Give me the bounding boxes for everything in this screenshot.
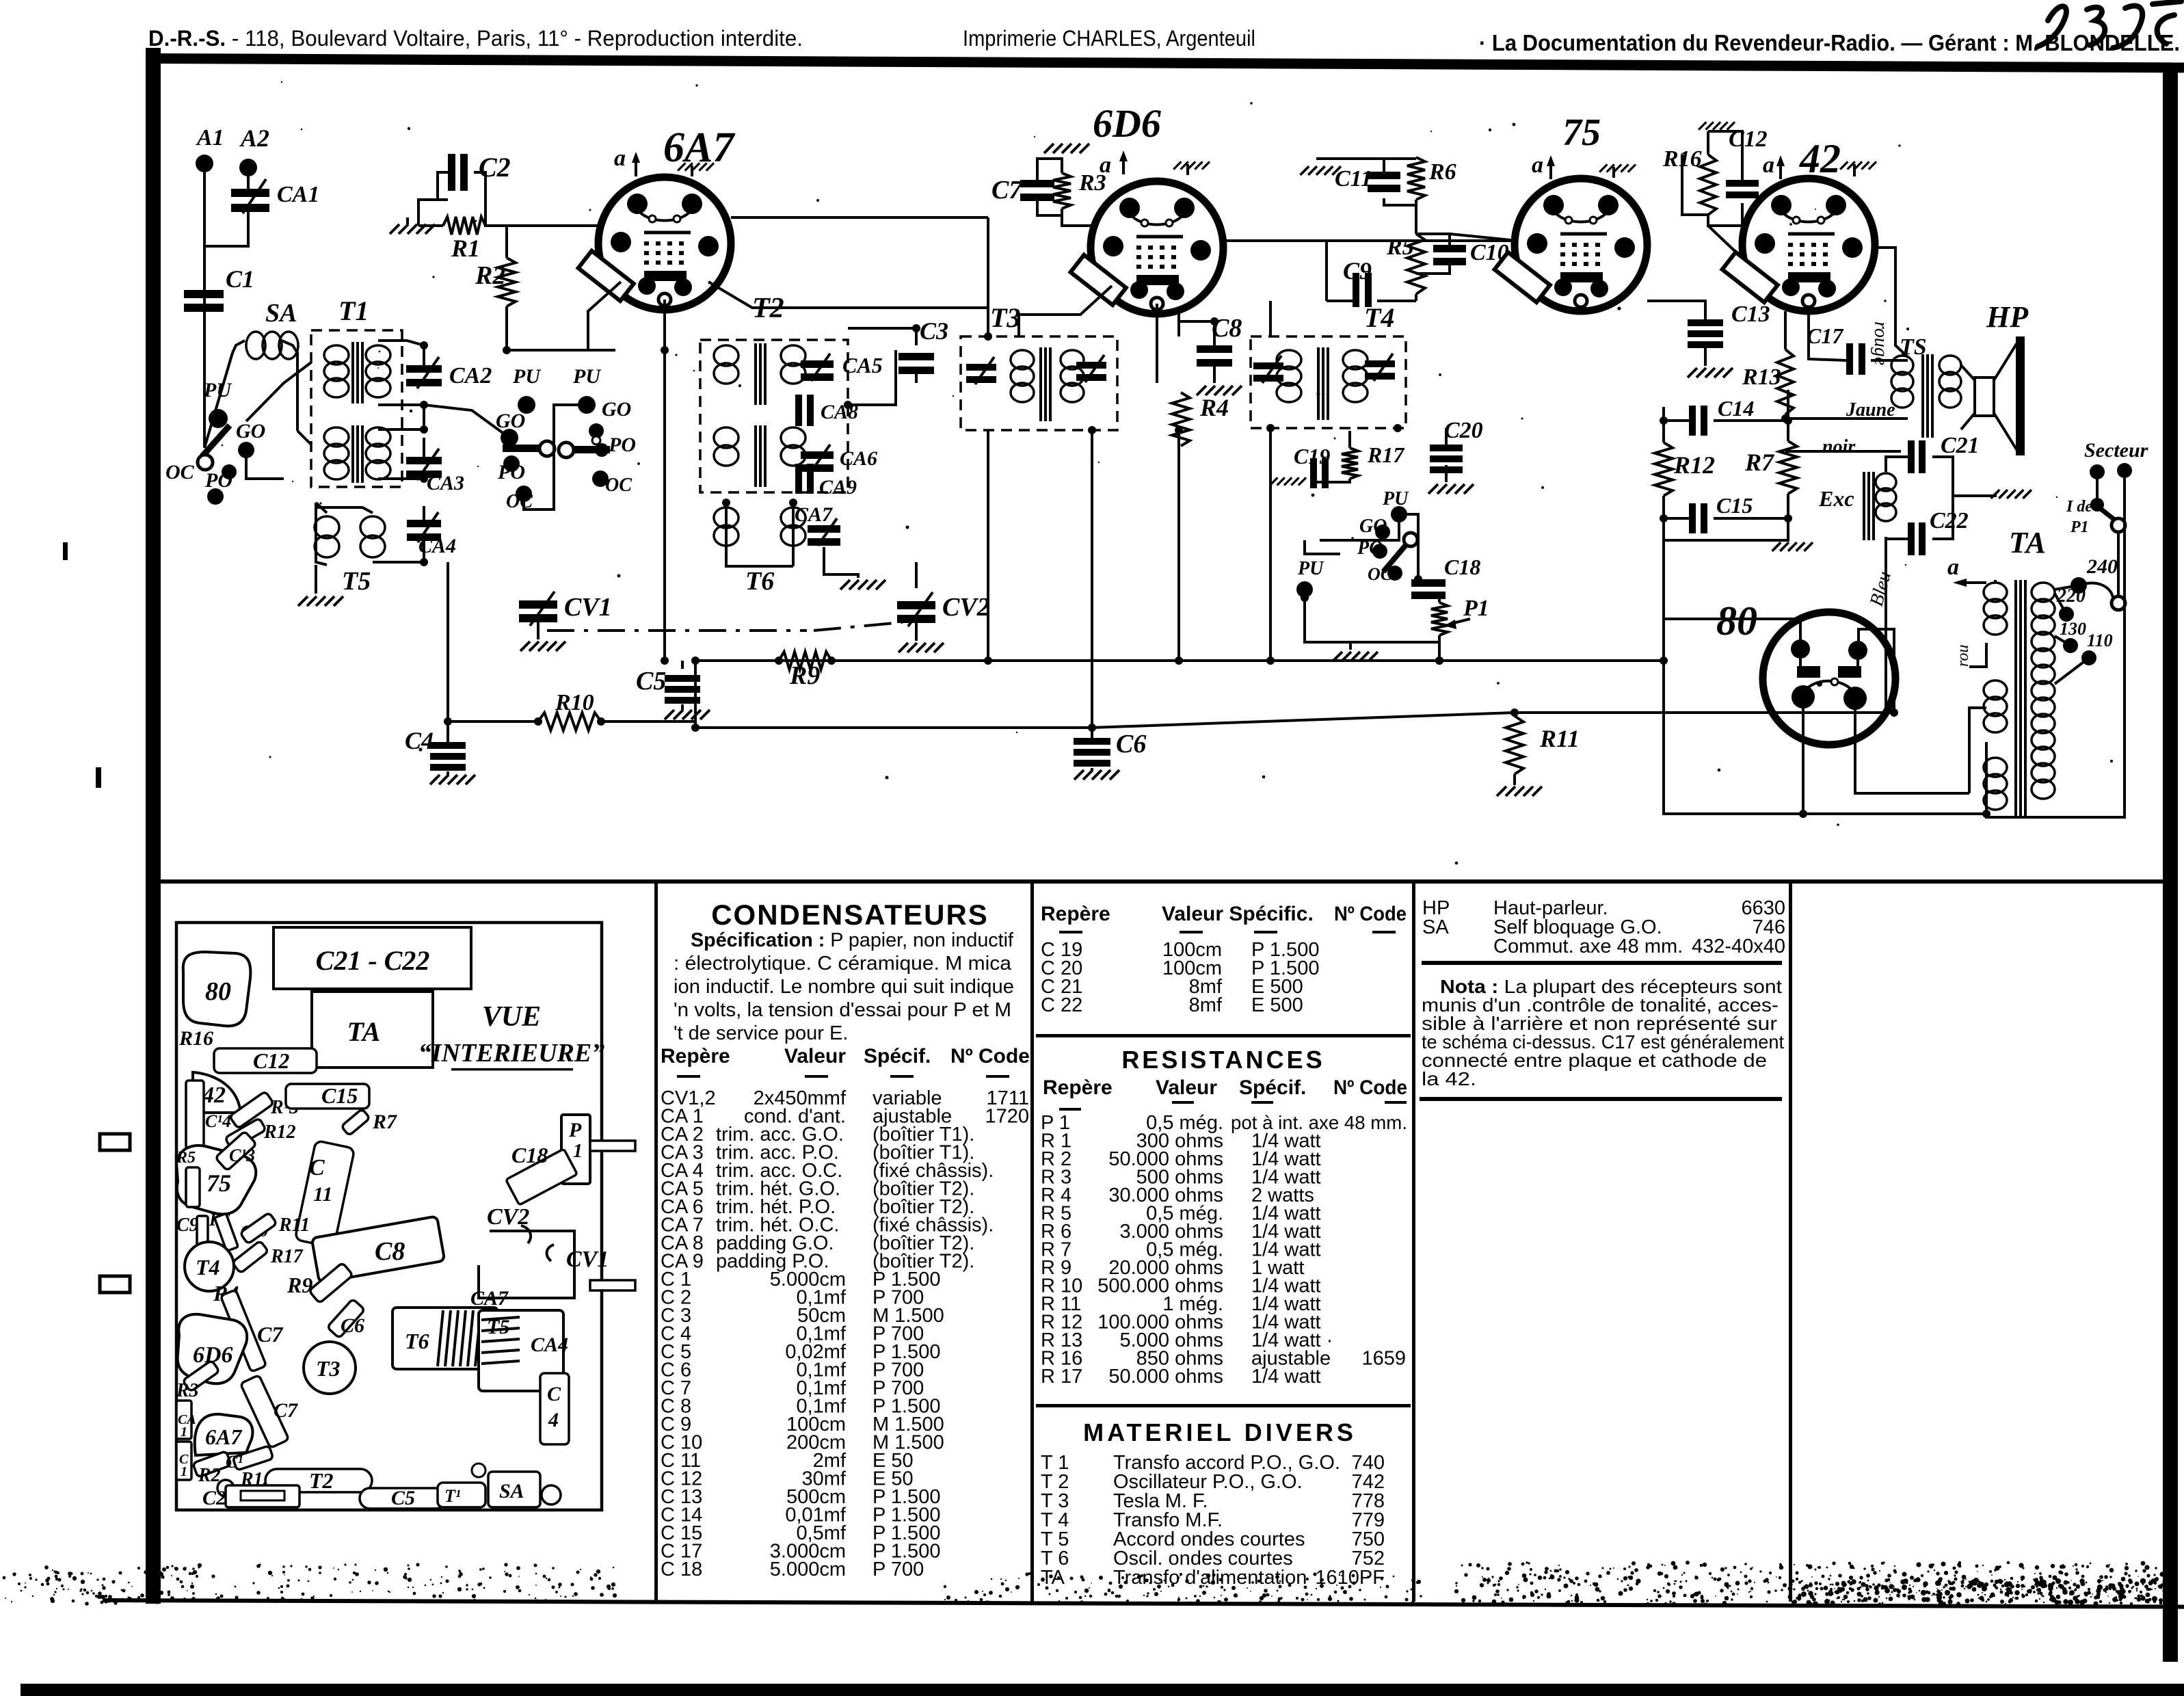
svg-text:8mf: 8mf: [1189, 994, 1223, 1016]
svg-text:TA: TA: [2009, 526, 2046, 559]
svg-text:110: 110: [2087, 631, 2113, 650]
svg-text:GO: GO: [496, 410, 525, 432]
svg-text:T6: T6: [745, 567, 774, 596]
svg-text:R17: R17: [1367, 442, 1405, 467]
svg-text:A2: A2: [239, 124, 269, 152]
svg-text:T5: T5: [487, 1316, 509, 1338]
svg-text:R2: R2: [475, 261, 505, 290]
svg-text:SA: SA: [265, 299, 297, 328]
svg-text:Valeur Spécific.: Valeur Spécific.: [1162, 903, 1314, 925]
svg-text:Imprimerie CHARLES, Argenteuil: Imprimerie CHARLES, Argenteuil: [963, 26, 1255, 51]
svg-text:a: a: [1532, 153, 1543, 178]
svg-text:T2: T2: [309, 1468, 334, 1493]
svg-text:'t de service pour E.: 't de service pour E.: [674, 1022, 848, 1044]
svg-text:C6: C6: [341, 1314, 364, 1337]
svg-text:CA3: CA3: [427, 472, 464, 494]
svg-text:R5: R5: [1386, 235, 1414, 260]
svg-text:SA: SA: [1422, 916, 1449, 938]
svg-text:C18: C18: [1444, 555, 1480, 579]
svg-text:R7: R7: [372, 1111, 397, 1133]
svg-text:GO: GO: [602, 398, 631, 421]
svg-text:TA: TA: [347, 1016, 381, 1047]
svg-text:VUE: VUE: [482, 1001, 541, 1033]
svg-text:6D6: 6D6: [1093, 101, 1161, 146]
svg-text:C3: C3: [920, 317, 948, 345]
svg-text:Spécification : P papier, non: Spécification : P papier, non inductif: [691, 929, 1014, 951]
svg-text:MATERIEL DIVERS: MATERIEL DIVERS: [1083, 1418, 1357, 1446]
svg-text:240: 240: [2086, 555, 2118, 578]
svg-text:CA9: CA9: [819, 476, 857, 499]
svg-text:42: 42: [202, 1083, 226, 1108]
svg-text:ion inductif. Le nombre qui su: ion inductif. Le nombre qui suit indique: [674, 976, 1014, 998]
svg-text:T1: T1: [338, 295, 369, 326]
svg-text:Bleu: Bleu: [1866, 569, 1895, 609]
svg-text:C4: C4: [405, 727, 434, 754]
svg-text:Secteur: Secteur: [2084, 439, 2148, 462]
svg-text:E 500: E 500: [1251, 994, 1303, 1016]
svg-text:D.-R.-S. - 118, Boulevard Volt: D.-R.-S. - 118, Boulevard Voltaire, Pari…: [148, 26, 803, 51]
svg-text:C7: C7: [274, 1399, 298, 1422]
svg-text:Exc: Exc: [1818, 486, 1854, 511]
svg-text:PU: PU: [572, 365, 601, 388]
svg-text:CA1: CA1: [277, 182, 319, 207]
svg-text:C18: C18: [511, 1143, 548, 1167]
svg-text:11: 11: [313, 1183, 332, 1206]
svg-text:R16: R16: [178, 1027, 213, 1050]
svg-text:R 17: R 17: [1041, 1366, 1082, 1388]
svg-text:C22: C22: [1930, 508, 1969, 533]
svg-text:CV2: CV2: [942, 593, 990, 622]
svg-text:· La Documentation du Revendeu: · La Documentation du Revendeur-Radio. —…: [1479, 30, 2180, 55]
svg-text:P1: P1: [1463, 596, 1489, 621]
svg-text:50.000 ohms: 50.000 ohms: [1108, 1366, 1223, 1388]
svg-text:C: C: [309, 1155, 325, 1180]
svg-text:Repère: Repère: [661, 1045, 730, 1068]
svg-text:C8: C8: [375, 1237, 405, 1266]
svg-text:CA7: CA7: [470, 1287, 509, 1310]
svg-text:1/4 watt: 1/4 watt: [1251, 1366, 1321, 1388]
svg-text:Commut. axe 48 mm.: Commut. axe 48 mm.: [1493, 936, 1683, 957]
svg-text:75: 75: [1562, 111, 1601, 154]
svg-text:GO: GO: [1359, 516, 1387, 537]
svg-text:C9: C9: [1343, 257, 1372, 284]
svg-text:Valeur: Valeur: [784, 1045, 846, 1068]
svg-text:T4: T4: [1364, 302, 1394, 333]
svg-text:PO: PO: [497, 461, 525, 483]
svg-text:R5: R5: [176, 1149, 196, 1167]
svg-text:6A7: 6A7: [205, 1425, 243, 1449]
svg-text:noir: noir: [1822, 436, 1856, 458]
svg-text:OC: OC: [165, 461, 195, 483]
svg-text:HP: HP: [1986, 300, 2029, 334]
svg-text:C12: C12: [253, 1048, 289, 1073]
svg-text:R13: R13: [1742, 365, 1781, 390]
svg-text:R4: R4: [1199, 394, 1229, 421]
svg-text:R9: R9: [287, 1273, 312, 1297]
svg-text:CV1: CV1: [566, 1247, 609, 1272]
svg-text:T4: T4: [196, 1255, 220, 1280]
svg-text:CA7: CA7: [795, 503, 833, 526]
svg-text:PO: PO: [204, 469, 232, 492]
svg-text:PU: PU: [512, 365, 541, 388]
svg-text:42: 42: [1799, 136, 1841, 181]
svg-text:P 700: P 700: [873, 1559, 924, 1580]
svg-text:C21 - C22: C21 - C22: [316, 945, 430, 976]
svg-text:T3: T3: [316, 1356, 341, 1381]
svg-text:C2: C2: [479, 152, 511, 183]
svg-text:C5: C5: [636, 667, 666, 695]
svg-text:1: 1: [181, 1425, 187, 1440]
svg-text:C14: C14: [1718, 396, 1754, 421]
svg-text:R2: R2: [198, 1465, 221, 1486]
svg-text:1659: 1659: [1361, 1348, 1406, 1370]
svg-text:R3: R3: [176, 1380, 199, 1401]
svg-text:5.000cm: 5.000cm: [770, 1559, 846, 1580]
svg-text:P1: P1: [2070, 518, 2089, 536]
svg-text:a: a: [1947, 555, 1959, 580]
svg-text:T5: T5: [342, 567, 371, 596]
svg-text:1: 1: [573, 1141, 583, 1162]
svg-text:RESISTANCES: RESISTANCES: [1121, 1046, 1324, 1074]
svg-text:C¹4: C¹4: [205, 1111, 231, 1131]
svg-text:C15: C15: [321, 1083, 358, 1108]
svg-text:Nº Code: Nº Code: [1334, 903, 1407, 925]
svg-text:C7: C7: [257, 1322, 284, 1347]
svg-text:R10: R10: [555, 690, 594, 715]
svg-text:C 18: C 18: [661, 1559, 702, 1580]
svg-text:Valeur: Valeur: [1156, 1076, 1217, 1099]
svg-text:CA2: CA2: [449, 363, 492, 388]
svg-text:80: 80: [1716, 598, 1757, 644]
svg-text:R17: R17: [270, 1246, 304, 1267]
svg-text:Nº Code: Nº Code: [1333, 1076, 1407, 1099]
svg-text:C5: C5: [391, 1487, 415, 1509]
svg-text:PU: PU: [1297, 558, 1324, 579]
svg-text:P: P: [568, 1119, 582, 1141]
svg-text:C17: C17: [1807, 323, 1844, 348]
svg-text:C 22: C 22: [1041, 994, 1082, 1016]
svg-text:C6: C6: [1116, 730, 1146, 758]
svg-text:a: a: [614, 146, 626, 171]
svg-text:T3: T3: [990, 302, 1020, 333]
svg-text:R11: R11: [1539, 725, 1580, 752]
svg-text:CA5: CA5: [842, 353, 883, 377]
svg-text:C21: C21: [1941, 433, 1980, 458]
svg-text:“INTERIEURE”: “INTERIEURE”: [418, 1039, 604, 1068]
svg-text:CV1: CV1: [564, 593, 612, 622]
svg-text:C19: C19: [1294, 444, 1330, 468]
svg-text:R1: R1: [451, 235, 480, 262]
svg-text:1720: 1720: [985, 1106, 1029, 1128]
svg-text:a: a: [1100, 153, 1111, 178]
svg-text:SA: SA: [499, 1480, 524, 1502]
svg-text:R12: R12: [263, 1122, 296, 1143]
svg-text:PO: PO: [608, 434, 636, 456]
svg-text:C11: C11: [1335, 166, 1372, 191]
svg-text:R9: R9: [789, 661, 820, 690]
svg-text:C20: C20: [1444, 418, 1483, 443]
svg-text:C8: C8: [1212, 314, 1242, 343]
svg-text:C7: C7: [991, 176, 1023, 204]
svg-text:: électrolytique. C céramiqu: : électrolytique. C céramique. M mica: [674, 953, 1012, 975]
svg-text:Spécif.: Spécif.: [864, 1045, 931, 1068]
svg-text:CA4: CA4: [531, 1334, 568, 1356]
svg-text:CONDENSATEURS: CONDENSATEURS: [711, 899, 989, 931]
svg-text:PU: PU: [1382, 488, 1409, 509]
svg-text:Repère: Repère: [1041, 903, 1110, 925]
svg-text:75: 75: [207, 1169, 231, 1197]
svg-text:R12: R12: [1673, 451, 1715, 479]
svg-text:C1: C1: [226, 265, 254, 293]
svg-text:80: 80: [205, 977, 231, 1006]
svg-text:C¹3: C¹3: [229, 1145, 255, 1165]
svg-text:T¹: T¹: [444, 1486, 461, 1506]
svg-text:T6: T6: [405, 1329, 429, 1353]
svg-text:Jaune: Jaune: [1846, 399, 1895, 421]
svg-text:C9: C9: [176, 1215, 199, 1236]
svg-text:1: 1: [181, 1464, 187, 1479]
svg-text:4: 4: [548, 1409, 559, 1431]
svg-text:TA: TA: [1041, 1567, 1065, 1589]
svg-text:C2: C2: [202, 1487, 226, 1509]
svg-text:CA6: CA6: [840, 447, 877, 470]
svg-text:rou: rou: [1954, 645, 1972, 667]
svg-text:C15: C15: [1716, 493, 1753, 518]
svg-text:la 42.: la 42.: [1422, 1068, 1476, 1089]
svg-text:A1: A1: [196, 125, 224, 150]
svg-text:a: a: [1763, 153, 1774, 178]
svg-text:rouge: rouge: [1870, 321, 1891, 365]
svg-text:T2: T2: [752, 293, 784, 324]
svg-text:I de: I de: [2066, 498, 2092, 516]
svg-text:130: 130: [2060, 619, 2086, 639]
svg-text:C13: C13: [1731, 302, 1770, 327]
svg-text:Spécif.: Spécif.: [1239, 1076, 1306, 1099]
svg-text:R7: R7: [1744, 449, 1775, 476]
svg-text:'n volts, la tension d'essai p: 'n volts, la tension d'essai pour P et M: [674, 999, 1011, 1021]
svg-text:R11: R11: [278, 1215, 310, 1236]
svg-text:C: C: [547, 1383, 561, 1405]
svg-text:OC: OC: [605, 475, 632, 496]
svg-text:Nº Code: Nº Code: [950, 1045, 1030, 1068]
svg-text:GO: GO: [236, 420, 265, 442]
svg-text:OC: OC: [1368, 564, 1393, 584]
svg-text:432-40x40: 432-40x40: [1692, 936, 1785, 957]
svg-text:PU: PU: [203, 379, 232, 401]
svg-text:R6: R6: [1428, 159, 1456, 185]
svg-text:Repère: Repère: [1043, 1076, 1113, 1099]
